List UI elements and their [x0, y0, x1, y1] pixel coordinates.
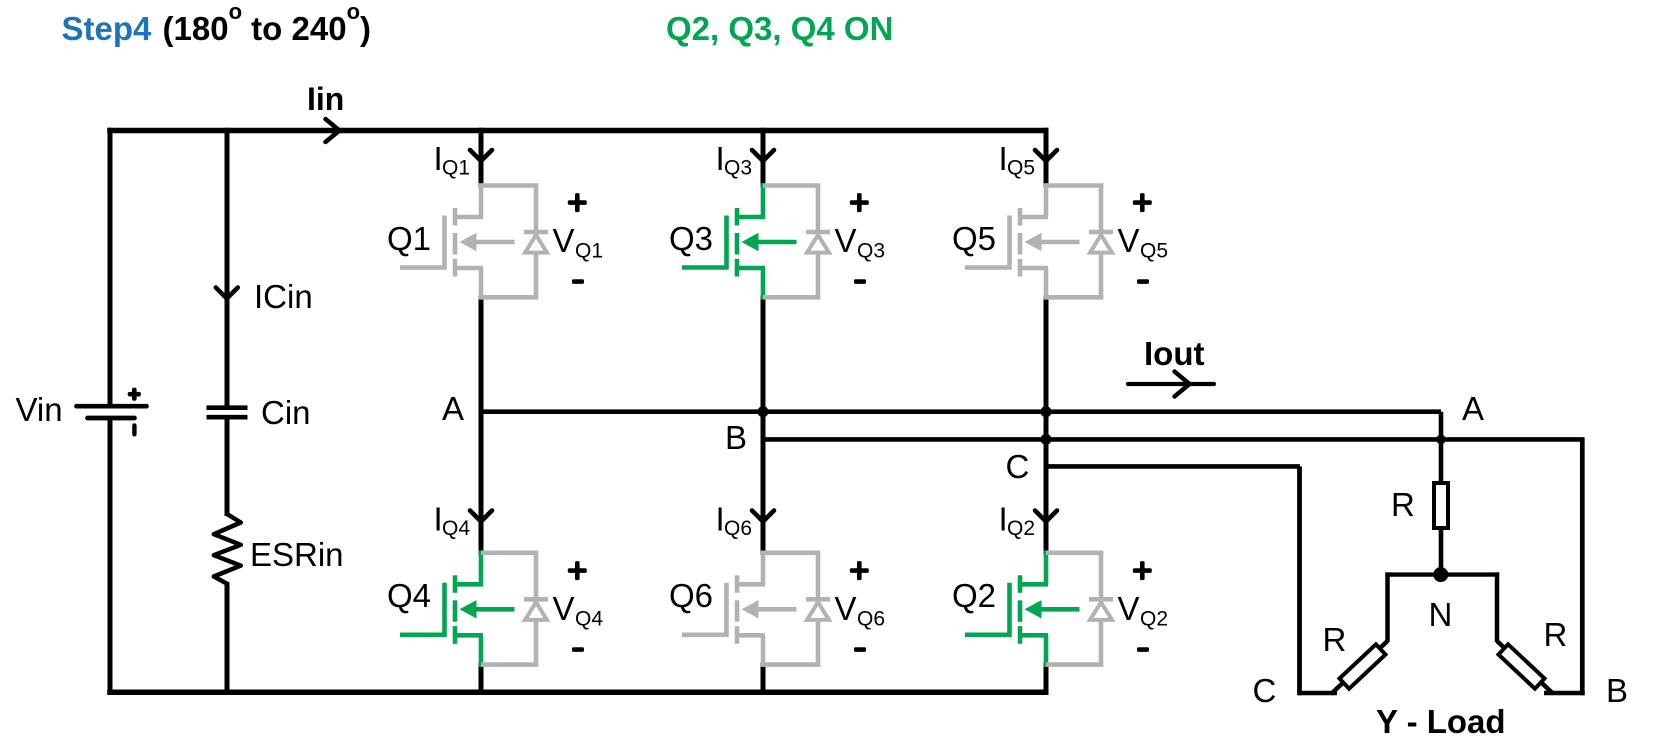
wire N right drop	[1495, 572, 1500, 642]
svg-text:Q2: Q2	[952, 577, 996, 614]
wire bottom bus	[107, 690, 1048, 696]
svg-text:Q3: Q3	[857, 239, 885, 262]
wire phase A line	[481, 409, 1441, 414]
junction dot phase A at leg B	[758, 406, 769, 417]
wire leg A lower	[479, 663, 484, 695]
svg-text:Q3: Q3	[724, 157, 752, 180]
wire diagonal lead phase C	[1331, 641, 1388, 694]
wire phase C line	[1046, 464, 1300, 469]
body diode of Q5	[1046, 186, 1113, 298]
battery Vin top plate	[77, 404, 147, 409]
arrow IQ5	[1035, 150, 1057, 161]
svg-text:Iout: Iout	[1144, 335, 1204, 372]
svg-text:N: N	[1429, 596, 1453, 633]
svg-text:Q3: Q3	[669, 220, 713, 257]
wire leg A middle	[479, 296, 484, 556]
wire B drop	[1580, 437, 1585, 695]
label minus of VQ5	[1137, 279, 1149, 284]
battery minus mark	[132, 423, 136, 436]
wire N left drop	[1385, 572, 1390, 642]
svg-text:Y - Load: Y - Load	[1376, 703, 1506, 740]
svg-text:R: R	[1391, 486, 1415, 523]
svg-text:Q1: Q1	[387, 220, 431, 257]
arrow Iout head	[1175, 372, 1190, 397]
label plus of VQ2	[1133, 561, 1152, 580]
body diode of Q2	[1046, 553, 1113, 665]
label plus of VQ4	[568, 561, 587, 580]
label minus of VQ4	[572, 647, 584, 652]
wire leg B upper	[761, 128, 766, 188]
arrow IQ3	[752, 150, 774, 161]
svg-text:ESRin: ESRin	[250, 536, 344, 573]
svg-text:Q6: Q6	[669, 577, 713, 614]
svg-text:Q5: Q5	[1140, 239, 1168, 262]
wire R to N	[1439, 528, 1444, 576]
arrow ICin	[216, 288, 238, 299]
junction dot phase B at leg C	[1041, 434, 1052, 445]
resistor R phase A	[1434, 483, 1448, 528]
wire leg C upper	[1044, 128, 1049, 188]
svg-text:B: B	[725, 419, 747, 456]
junction dot phase A at leg C	[1041, 406, 1052, 417]
wire leg A upper	[479, 128, 484, 188]
resistor R phase B (diagonal)	[1498, 644, 1544, 688]
label minus of VQ2	[1137, 647, 1149, 652]
svg-text:Step4: Step4	[62, 10, 153, 47]
wire leg B middle	[761, 296, 766, 556]
transistor Q6 (OFF)	[682, 551, 797, 667]
svg-text:Q4: Q4	[575, 607, 603, 630]
battery Vin bottom plate	[88, 416, 135, 421]
wire Cin branch lower	[225, 582, 230, 695]
svg-text:C: C	[1006, 448, 1030, 485]
svg-text:Q1: Q1	[575, 239, 603, 262]
label minus of VQ6	[854, 647, 866, 652]
label plus of VQ1	[568, 193, 587, 212]
svg-text:Q4: Q4	[442, 517, 470, 540]
svg-text:A: A	[1462, 390, 1484, 427]
svg-text:Q4: Q4	[387, 577, 431, 614]
resistor R phase C (diagonal)	[1339, 644, 1385, 688]
wire leg C middle	[1044, 296, 1049, 556]
arrow IQ6	[752, 511, 774, 522]
transistor Q4 (ON)	[400, 551, 515, 667]
wire leg C lower	[1044, 663, 1049, 695]
arrow IQ4	[470, 511, 492, 522]
svg-text:R: R	[1323, 621, 1347, 658]
wire B bottom lead	[1544, 691, 1585, 696]
transistor Q3 (ON)	[682, 183, 797, 299]
svg-text:V: V	[1118, 590, 1140, 627]
wire Cin branch middle	[225, 419, 230, 516]
svg-text:Vin: Vin	[16, 391, 63, 428]
wire leg B lower	[761, 663, 766, 695]
wire A drop	[1439, 412, 1444, 483]
arrow IQ2	[1035, 511, 1057, 522]
svg-text:Q6: Q6	[724, 517, 752, 540]
svg-text:B: B	[1606, 672, 1628, 709]
capacitor Cin bottom plate	[207, 415, 248, 420]
svg-text:Cin: Cin	[261, 394, 311, 431]
wire C bottom lead	[1298, 691, 1337, 696]
arrow Iin	[326, 119, 340, 142]
svg-text:A: A	[442, 390, 464, 427]
body diode of Q3	[763, 186, 830, 298]
label plus of VQ5	[1133, 193, 1152, 212]
svg-text:Q6: Q6	[857, 607, 885, 630]
wire Cin branch upper	[225, 128, 230, 406]
svg-text:Q1: Q1	[442, 157, 470, 180]
transistor Q1 (OFF)	[400, 183, 515, 299]
body diode of Q4	[481, 553, 548, 665]
wire N bar	[1385, 572, 1499, 576]
battery plus mark	[128, 388, 141, 401]
svg-text:V: V	[835, 590, 857, 627]
node N dot	[1433, 567, 1448, 582]
wire left rail lower	[108, 420, 113, 695]
label plus of VQ3	[850, 193, 869, 212]
svg-text:Q5: Q5	[952, 220, 996, 257]
label minus of VQ1	[572, 279, 584, 284]
wire C drop	[1297, 466, 1302, 695]
svg-text:ICin: ICin	[254, 278, 313, 315]
svg-text:V: V	[553, 590, 575, 627]
transistor Q5 (OFF)	[965, 183, 1080, 299]
arrow IQ1	[470, 150, 492, 161]
junction dot A drop at phase B	[1436, 435, 1446, 445]
svg-text:V: V	[835, 222, 857, 259]
svg-text:C: C	[1253, 672, 1277, 709]
svg-text:Iin: Iin	[307, 81, 344, 117]
svg-text:Q2, Q3, Q4 ON: Q2, Q3, Q4 ON	[666, 10, 893, 47]
label plus of VQ6	[850, 561, 869, 580]
svg-text:V: V	[1118, 222, 1140, 259]
svg-text:V: V	[553, 222, 575, 259]
wire diagonal lead phase B	[1497, 641, 1554, 694]
body diode of Q1	[481, 186, 548, 298]
svg-text:Q2: Q2	[1007, 517, 1035, 540]
resistor ESRin	[214, 514, 241, 584]
transistor Q2 (ON)	[965, 551, 1080, 667]
body diode of Q6	[763, 553, 830, 665]
wire phase B line	[763, 437, 1583, 442]
capacitor Cin top plate	[207, 405, 248, 410]
label minus of VQ3	[854, 279, 866, 284]
svg-text:Q2: Q2	[1140, 607, 1168, 630]
arrow Iout line	[1128, 382, 1214, 386]
svg-text:Q5: Q5	[1007, 157, 1035, 180]
wire left rail upper	[108, 128, 113, 405]
wire top bus	[107, 128, 1048, 134]
svg-text:R: R	[1544, 616, 1568, 653]
